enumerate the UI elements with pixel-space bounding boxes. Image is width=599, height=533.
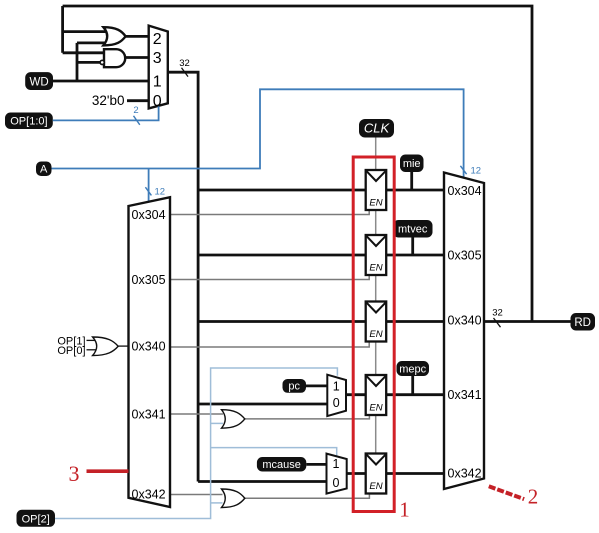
port CLK [359,119,394,138]
svg-text:OP[1:0]: OP[1:0] [10,116,47,128]
wire decoder row 0x340 enable [170,342,369,348]
wire row2 data right to mux M4 [386,254,444,257]
wire row4 data to mux M2 input 0 [198,403,327,406]
wire OR gate G1 top input (RD) [63,30,109,33]
wire 32'b0 to mux M1 input 0 [127,99,149,102]
wire AND G2 output to mux M1 input 3 [125,56,149,59]
register R2 mtvec [366,235,387,275]
svg-text:0: 0 [153,93,162,110]
wire OP[0] to OR G3 [87,349,98,351]
svg-text:mcause: mcause [262,459,301,471]
svg-text:12: 12 [471,166,482,177]
wire clock chain R1 to R2 [375,210,377,235]
wire mux M3 output to register R5 [347,472,366,475]
or-gate G4 row4 enable [222,410,245,429]
svg-text:RD: RD [574,317,591,329]
wire mcause to mux M3 input 1 [306,463,326,466]
svg-text:EN: EN [369,198,382,209]
svg-text:3: 3 [69,461,80,486]
wire WD to mux M1 input 1 [53,80,149,83]
net label mtvec [393,220,433,238]
annotation red line 2 [489,486,524,499]
wire row5 data right to mux M4 [386,472,444,475]
svg-text:0x304: 0x304 [448,184,482,198]
svg-text:A: A [40,163,48,175]
wire OP[2] branch to OR G4 [211,422,223,424]
annotation red label 2 [528,485,539,509]
register R1 mie [366,170,387,210]
port OP[1:0] [5,113,53,130]
bus slash 12 at mux M4 [460,166,481,177]
port pc [283,379,307,393]
svg-text:0x305: 0x305 [448,249,482,263]
svg-text:WD: WD [30,76,49,88]
svg-text:1: 1 [153,73,162,90]
bus slash 2 on OP[1:0] [133,105,139,125]
wire decoder row 0x304 enable [170,210,369,215]
svg-text:2: 2 [153,31,162,48]
svg-text:0x304: 0x304 [132,208,166,222]
port RD [571,313,596,331]
register R4 mepc [366,375,387,415]
svg-text:0x340: 0x340 [132,340,166,354]
svg-text:0x342: 0x342 [132,488,166,502]
svg-text:0x342: 0x342 [448,467,482,481]
wire mux M2 output to register R4 [346,393,366,396]
mux M1 write-data select [149,26,168,110]
svg-text:32: 32 [492,308,503,319]
annotation red box 1 [353,157,394,512]
svg-text:mie: mie [403,158,421,170]
wire RD tap vertical to gate inputs [61,6,64,53]
wire row1 data left [198,189,366,192]
bus label 32 on mux M1 output [179,58,190,77]
svg-text:EN: EN [369,329,382,340]
svg-text:mtvec: mtvec [398,224,428,236]
svg-text:CLK: CLK [364,121,391,136]
port WD [25,72,53,90]
annotation red line 3 [87,469,129,473]
wire OR G5 output to register R5 enable [245,494,370,499]
svg-text:EN: EN [369,403,382,414]
port mcause [257,457,306,472]
wire decoder row 0x342 to OR G5 [170,494,223,496]
and-gate G2 (RD & ~WD) [104,49,125,67]
svg-text:EN: EN [369,263,382,274]
register R3 mscratch [366,302,387,342]
wire mepc stub [411,376,414,395]
svg-text:mepc: mepc [399,364,426,376]
svg-text:12: 12 [155,187,166,198]
port A [36,162,52,177]
wire RD feedback: top horizontal and right vertical from RD net [63,6,532,322]
wire row3 data right to mux M4 [386,320,444,323]
wire OP[2] branch to OR G5 [211,502,223,504]
wire clock chain R4 to R5 [375,415,377,454]
svg-text:pc: pc [288,380,300,392]
svg-text:0x340: 0x340 [448,314,482,328]
signal label OP[1] [57,336,85,348]
register R5 mcause [366,454,387,494]
wire mie stub [410,172,413,190]
svg-text:2: 2 [133,105,138,116]
annotation red label 3 [69,461,80,486]
wire OP[1:0] select to mux M1 [53,106,159,120]
wire row5 data to mux M3 input 0 [198,480,326,483]
wire pc to mux M2 input 1 [306,384,327,387]
svg-text:3: 3 [153,50,162,67]
or-gate G1 (RD | WD) [103,27,125,45]
wire clock chain R2 to R3 [375,275,377,302]
wire mtvec stub [411,238,414,256]
wire WD tap vertical [76,43,79,81]
wire OR G1 output to mux M1 input 2 [126,35,149,38]
wire RD output [484,320,571,323]
mux M3 mcause select [327,454,347,494]
bus slash 12 at decoder D1 [145,187,165,198]
net label mie [400,155,424,173]
port OP[2] [17,510,56,527]
wire OR G3 output to decoder [118,345,128,347]
wire clock chain CLK to R1 [375,138,377,171]
wire decoder row 0x341 to OR G4 [170,413,223,415]
bus label 32 on RD [492,308,503,328]
wire AND gate G2 top input (RD) [63,51,106,54]
wire OR G4 output to register R4 enable [245,415,370,419]
svg-text:EN: EN [369,481,382,492]
svg-text:0x341: 0x341 [448,388,482,402]
mux M2 pc select [327,375,346,416]
wire OP[2] branch to mux M3 select [211,448,337,457]
wire OP[2] net [55,368,337,519]
svg-text:32'b0: 32'b0 [92,93,125,108]
value label 32'b0 [92,93,125,108]
wire A address net [52,89,464,178]
svg-text:OP[0]: OP[0] [57,345,85,357]
wire row4 data right to mux M4 [386,393,444,396]
wire A branch to decoder D1 select [148,169,150,202]
signal label OP[0] [57,345,85,357]
svg-text:0: 0 [333,396,340,410]
svg-text:OP[2]: OP[2] [22,514,50,526]
svg-text:1: 1 [333,380,340,394]
svg-text:32: 32 [179,58,190,69]
wire AND gate G2 inverted input (WD) [77,61,100,64]
svg-text:1: 1 [399,498,410,522]
wire OP[1] to OR G3 [87,339,98,341]
wire decoder row 0x305 enable [170,275,369,280]
svg-text:1: 1 [333,457,340,471]
wire clock chain R3 to R4 [375,342,377,376]
net label mepc [397,361,430,376]
decoder D1 address decode [129,197,171,507]
wire OR gate G1 bottom input (WD) [77,42,109,45]
wire row2 data left [198,254,366,257]
annotation red label 1 [399,498,410,522]
wire row1 data right to mux M4 [386,189,444,192]
mux M4 read select [444,173,484,490]
inverter bubble on G2 lower input [100,60,104,64]
svg-text:0x305: 0x305 [132,273,166,287]
svg-text:0: 0 [333,476,340,490]
or-gate G5 row5 enable [222,489,245,508]
or-gate G3 (OP[1]|OP[0]) [93,337,119,356]
wire row3 data left [198,320,366,323]
svg-text:2: 2 [528,485,539,509]
wire mux M1 output to vertical write bus [168,72,198,481]
svg-text:0x341: 0x341 [132,408,166,422]
